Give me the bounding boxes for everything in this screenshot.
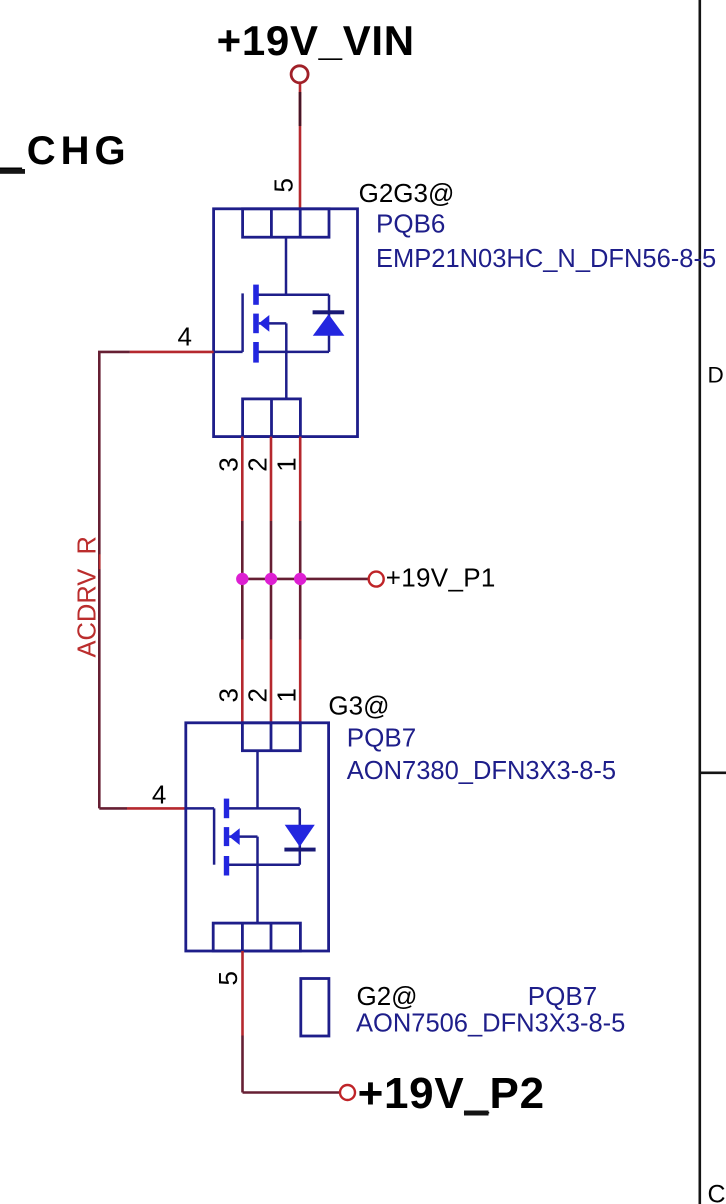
wire pin1 red upper (299, 437, 302, 521)
transistor Q1 PQB6 outer box (214, 209, 358, 437)
Q1 top pad rectangle (3 cells) (243, 209, 329, 237)
Q2 gate vertical wire (213, 808, 216, 864)
junction node pin1 (294, 573, 306, 585)
Q2 body diode triangle (285, 825, 315, 847)
Q1 drain vertical wire (285, 237, 288, 295)
Q1 source vertical wire (285, 323, 288, 399)
svg-text:3: 3 (214, 457, 244, 471)
net label +19V_P2 underscore thickening (464, 1111, 489, 1116)
wire Q2 pin5 red (241, 951, 244, 1036)
Q2 source vertical wire (256, 837, 259, 924)
svg-text:ACDRV_R: ACDRV_R (74, 536, 102, 657)
sheet border tick (699, 771, 726, 774)
Q1 channel bar middle (253, 314, 259, 334)
svg-text:3: 3 (214, 688, 244, 702)
svg-text:5: 5 (269, 178, 299, 192)
Q2 channel bar bottom (224, 856, 229, 876)
Q2 drain vertical wire (256, 751, 259, 809)
Q2 bottom pad rectangle (3 cells) (213, 923, 300, 951)
Q1 drain horizontal wire (257, 293, 329, 296)
wire to +19V_P1 terminal (242, 578, 368, 581)
svg-text:C: C (708, 1181, 726, 1204)
Q2 channel bar top (224, 799, 229, 819)
Q1 channel bar top (253, 285, 259, 305)
svg-text:+19V_P1: +19V_P1 (386, 562, 496, 592)
svg-text:1: 1 (272, 688, 302, 702)
Q2 source body horizontal wire (229, 835, 257, 838)
Q2 channel bar middle (224, 827, 229, 846)
svg-text:2: 2 (242, 457, 272, 471)
wire to +19V_P2 terminal (243, 1091, 341, 1094)
Q1 body diode triangle (313, 314, 345, 336)
wire pin3 red lower (241, 640, 244, 723)
Q1 body arrow (259, 315, 270, 332)
Q2 body arrow (229, 828, 240, 845)
wire pin1 maroon middle (299, 521, 302, 640)
wire pin1 red lower (299, 640, 302, 723)
svg-text:PQB7: PQB7 (347, 723, 416, 753)
junction node pin3 (236, 573, 248, 585)
svg-text:G2@: G2@ (357, 981, 418, 1011)
wire pin3 maroon middle (241, 521, 244, 640)
net ACDRV_R wire bottom horizontal red part (127, 807, 186, 810)
junction node pin2 (265, 573, 277, 585)
terminal +19V_VIN (291, 66, 308, 83)
wire pin2 red upper (270, 437, 273, 521)
Q1 channel bar bottom (253, 342, 259, 363)
terminal +19V_P2 (340, 1085, 355, 1100)
component U3 pad rectangle (301, 979, 329, 1037)
net label _CHG underscore thickening (0, 169, 25, 174)
Q1 source body horizontal wire (259, 322, 287, 325)
net ACDRV_R wire bottom horizontal maroon part (99, 807, 127, 810)
wire pin2 red lower (270, 640, 273, 723)
Q2 source bar horizontal wire (228, 863, 300, 866)
terminal +19V_P1 (369, 572, 384, 587)
wire Q2 pin5 maroon (241, 1036, 244, 1093)
svg-text:PQB6: PQB6 (376, 209, 445, 239)
net ACDRV_R wire top horizontal maroon part (98, 351, 130, 354)
svg-text:D: D (708, 363, 724, 388)
wire VIN dark segment (299, 92, 302, 126)
Q1 gate pin 4 internal wire (214, 351, 243, 354)
wire VIN vertical (299, 84, 302, 209)
Q2 drain horizontal wire (228, 807, 300, 810)
wire pin3 red upper (241, 437, 244, 521)
Q1 body diode vertical wire (328, 295, 331, 352)
svg-text:EMP21N03HC_N_DFN56-8-5: EMP21N03HC_N_DFN56-8-5 (376, 245, 716, 273)
svg-text:AON7506_DFN3X3-8-5: AON7506_DFN3X3-8-5 (356, 1010, 625, 1038)
net ACDRV_R wire vertical (98, 352, 101, 809)
wire pin2 maroon middle (270, 521, 273, 640)
Q2 body diode vertical wire (299, 808, 302, 864)
svg-text:1: 1 (272, 457, 302, 471)
svg-text:G2G3@: G2G3@ (359, 178, 455, 208)
Q1 bottom pad rectangle (2 cells) (243, 399, 301, 437)
svg-text:AON7380_DFN3X3-8-5: AON7380_DFN3X3-8-5 (347, 757, 616, 785)
Q2 body diode cathode bar (284, 848, 315, 852)
svg-text:5: 5 (213, 971, 243, 985)
svg-text:4: 4 (178, 322, 192, 352)
svg-text:2: 2 (242, 688, 272, 702)
svg-text:PQB7: PQB7 (528, 981, 597, 1011)
Q1 body diode cathode bar (313, 310, 345, 314)
svg-text:+19V_VIN: +19V_VIN (217, 17, 415, 64)
net ACDRV_R wire top horizontal red part (130, 351, 214, 354)
Q2 top pad rectangle (2 cells) (242, 723, 300, 751)
svg-text:+19V_P2: +19V_P2 (358, 1069, 545, 1118)
sheet border vertical line (698, 0, 701, 1204)
svg-text:_CHG: _CHG (0, 129, 131, 173)
Q1 gate vertical wire (241, 293, 244, 352)
Q1 source bar horizontal wire (257, 351, 329, 354)
transistor Q2 PQB7 outer box (186, 723, 329, 951)
svg-text:G3@: G3@ (328, 691, 389, 721)
svg-text:4: 4 (152, 779, 166, 809)
Q2 gate pin 4 internal wire (186, 807, 214, 810)
